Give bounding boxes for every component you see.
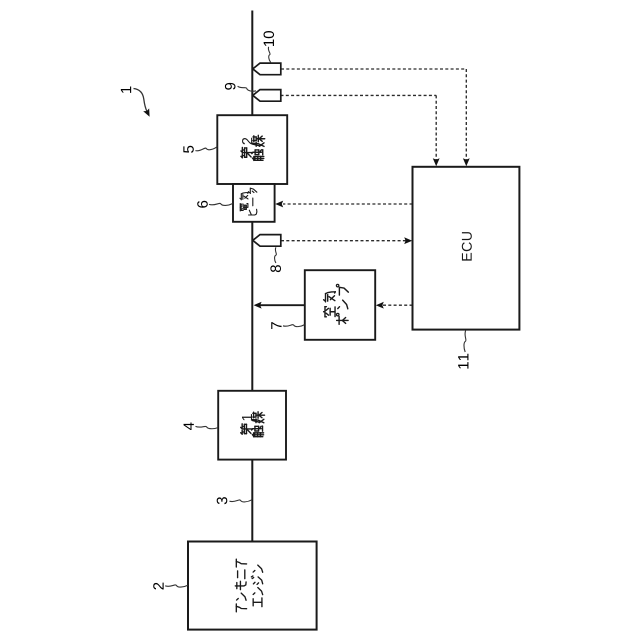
wire: dashed signal line from sensor 8 to ECU left edge — [281, 240, 406, 242]
leader for label 5 — [195, 147, 217, 151]
text: 電気ヒータ (electric heater) — [240, 188, 257, 215]
label 10 (sensor 10) — [263, 31, 274, 46]
label 6 (electric heater) — [197, 201, 208, 208]
leader for label 8 — [275, 247, 277, 263]
label 7 (air pump) — [271, 322, 281, 329]
wire: dashed signal line from sensor 10 to ECU top — [281, 68, 466, 70]
label 8 (sensor 8) — [270, 265, 281, 272]
label 1 (whole system) — [121, 86, 131, 92]
text: ECU — [462, 232, 472, 261]
wire: exhaust pipe upper segment (tailpipe to second catalyst) — [251, 11, 253, 117]
leader for label 6 — [209, 203, 233, 205]
sensor 9 (mid sensor) — [253, 90, 281, 102]
sensor 10 (downstream NH3/NOx sensor) — [253, 63, 281, 75]
label 9 (sensor 9) — [225, 83, 236, 90]
leader for label 3 — [230, 500, 252, 502]
wire: air injection line from air pump 7 into exhaust pipe — [260, 304, 305, 306]
leader for label 9 — [238, 86, 256, 91]
label 5 (second catalyst) — [183, 146, 193, 153]
leader for label 11 — [464, 331, 466, 352]
leader for label 10 — [268, 47, 270, 63]
leader for label 2 — [165, 585, 188, 587]
box: first catalyst (第1触媒) block 4 — [218, 391, 286, 460]
box: second catalyst (第2触媒) block 5 — [217, 115, 287, 184]
box: air pump (空気ポンプ) block 7 — [305, 270, 375, 340]
wire: dashed signal line from sensor 9 to ECU top — [281, 94, 437, 96]
label 4 (first catalyst) — [184, 422, 194, 430]
leader arrow for label 1 — [134, 89, 148, 113]
box: ammonia engine (アンモニアエンジン) block 2 — [188, 542, 317, 630]
sensor 8 (upstream sensor) — [253, 235, 281, 247]
wire: dashed control line from ECU to air pump 7 — [383, 304, 413, 306]
text: 第1触媒 (first catalyst) — [241, 412, 265, 437]
text: 第2触媒 (second catalyst) — [241, 135, 265, 160]
label 3 (exhaust pipe) — [217, 497, 228, 504]
text: 空気ポンプ (air pump) — [324, 284, 349, 324]
label 11 (ECU) — [458, 354, 468, 369]
text: アンモニアエンジン (ammonia engine) — [235, 559, 262, 612]
wire: dashed control line from ECU to electric heater 6 — [283, 203, 413, 205]
leader for label 7 — [283, 325, 305, 327]
box: electric heater (電気ヒータ) block 6 — [233, 184, 275, 222]
box: ECU block 11 — [413, 167, 520, 330]
wire: exhaust pipe lower segment (electric heater to engine) — [251, 221, 253, 542]
leader for label 4 — [196, 426, 219, 428]
label 2 (ammonia engine) — [153, 583, 163, 590]
